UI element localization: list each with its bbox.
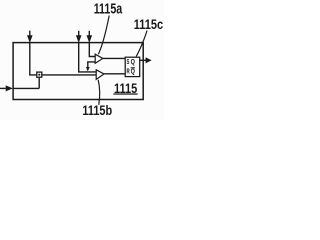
callout line for 1115a	[98, 16, 109, 55]
callout line for 1115b	[98, 80, 99, 105]
wire branch to comparator 1115a lower input	[88, 62, 95, 68]
op-amp comparator 1115b	[96, 70, 104, 80]
wire from top-middle arrow to comparator 1115b upper input	[79, 43, 97, 72]
latch 1115c box	[125, 57, 140, 76]
svg-text:S: S	[127, 57, 130, 66]
wire from top-left arrow down to multiplier	[30, 43, 37, 75]
label 1115 underlined	[113, 81, 137, 96]
op-amp comparator 1115a	[95, 54, 103, 63]
block 1115 outer box	[13, 43, 143, 100]
arrow tap onto comparator 1115b upper input wire	[86, 67, 90, 71]
wire multiplier bottom port	[38, 77, 40, 88]
input arrow top-middle	[76, 31, 82, 43]
wire from left arrow to multiplier bottom	[13, 87, 39, 89]
input arrow top-right	[87, 31, 93, 43]
input arrow top-left	[27, 31, 33, 43]
svg-text:Q: Q	[131, 57, 136, 66]
latch output wire and arrow	[140, 57, 152, 63]
wire comparator 1115a output to latch S input	[103, 57, 125, 59]
wire from top-right arrow to comparator 1115a upper input	[89, 43, 95, 57]
input arrow left	[0, 85, 13, 91]
svg-text:1115c: 1115c	[134, 16, 164, 32]
svg-text:1115a: 1115a	[94, 1, 123, 17]
callout line for 1115c	[136, 31, 147, 57]
wire multiplier output to comparator 1115b lower input	[42, 74, 96, 76]
wire comparator 1115b output to latch R input	[104, 73, 125, 75]
latch pin label Q-bar	[131, 66, 136, 75]
multiplier square with center dot	[37, 72, 42, 77]
svg-text:1115b: 1115b	[82, 103, 112, 118]
